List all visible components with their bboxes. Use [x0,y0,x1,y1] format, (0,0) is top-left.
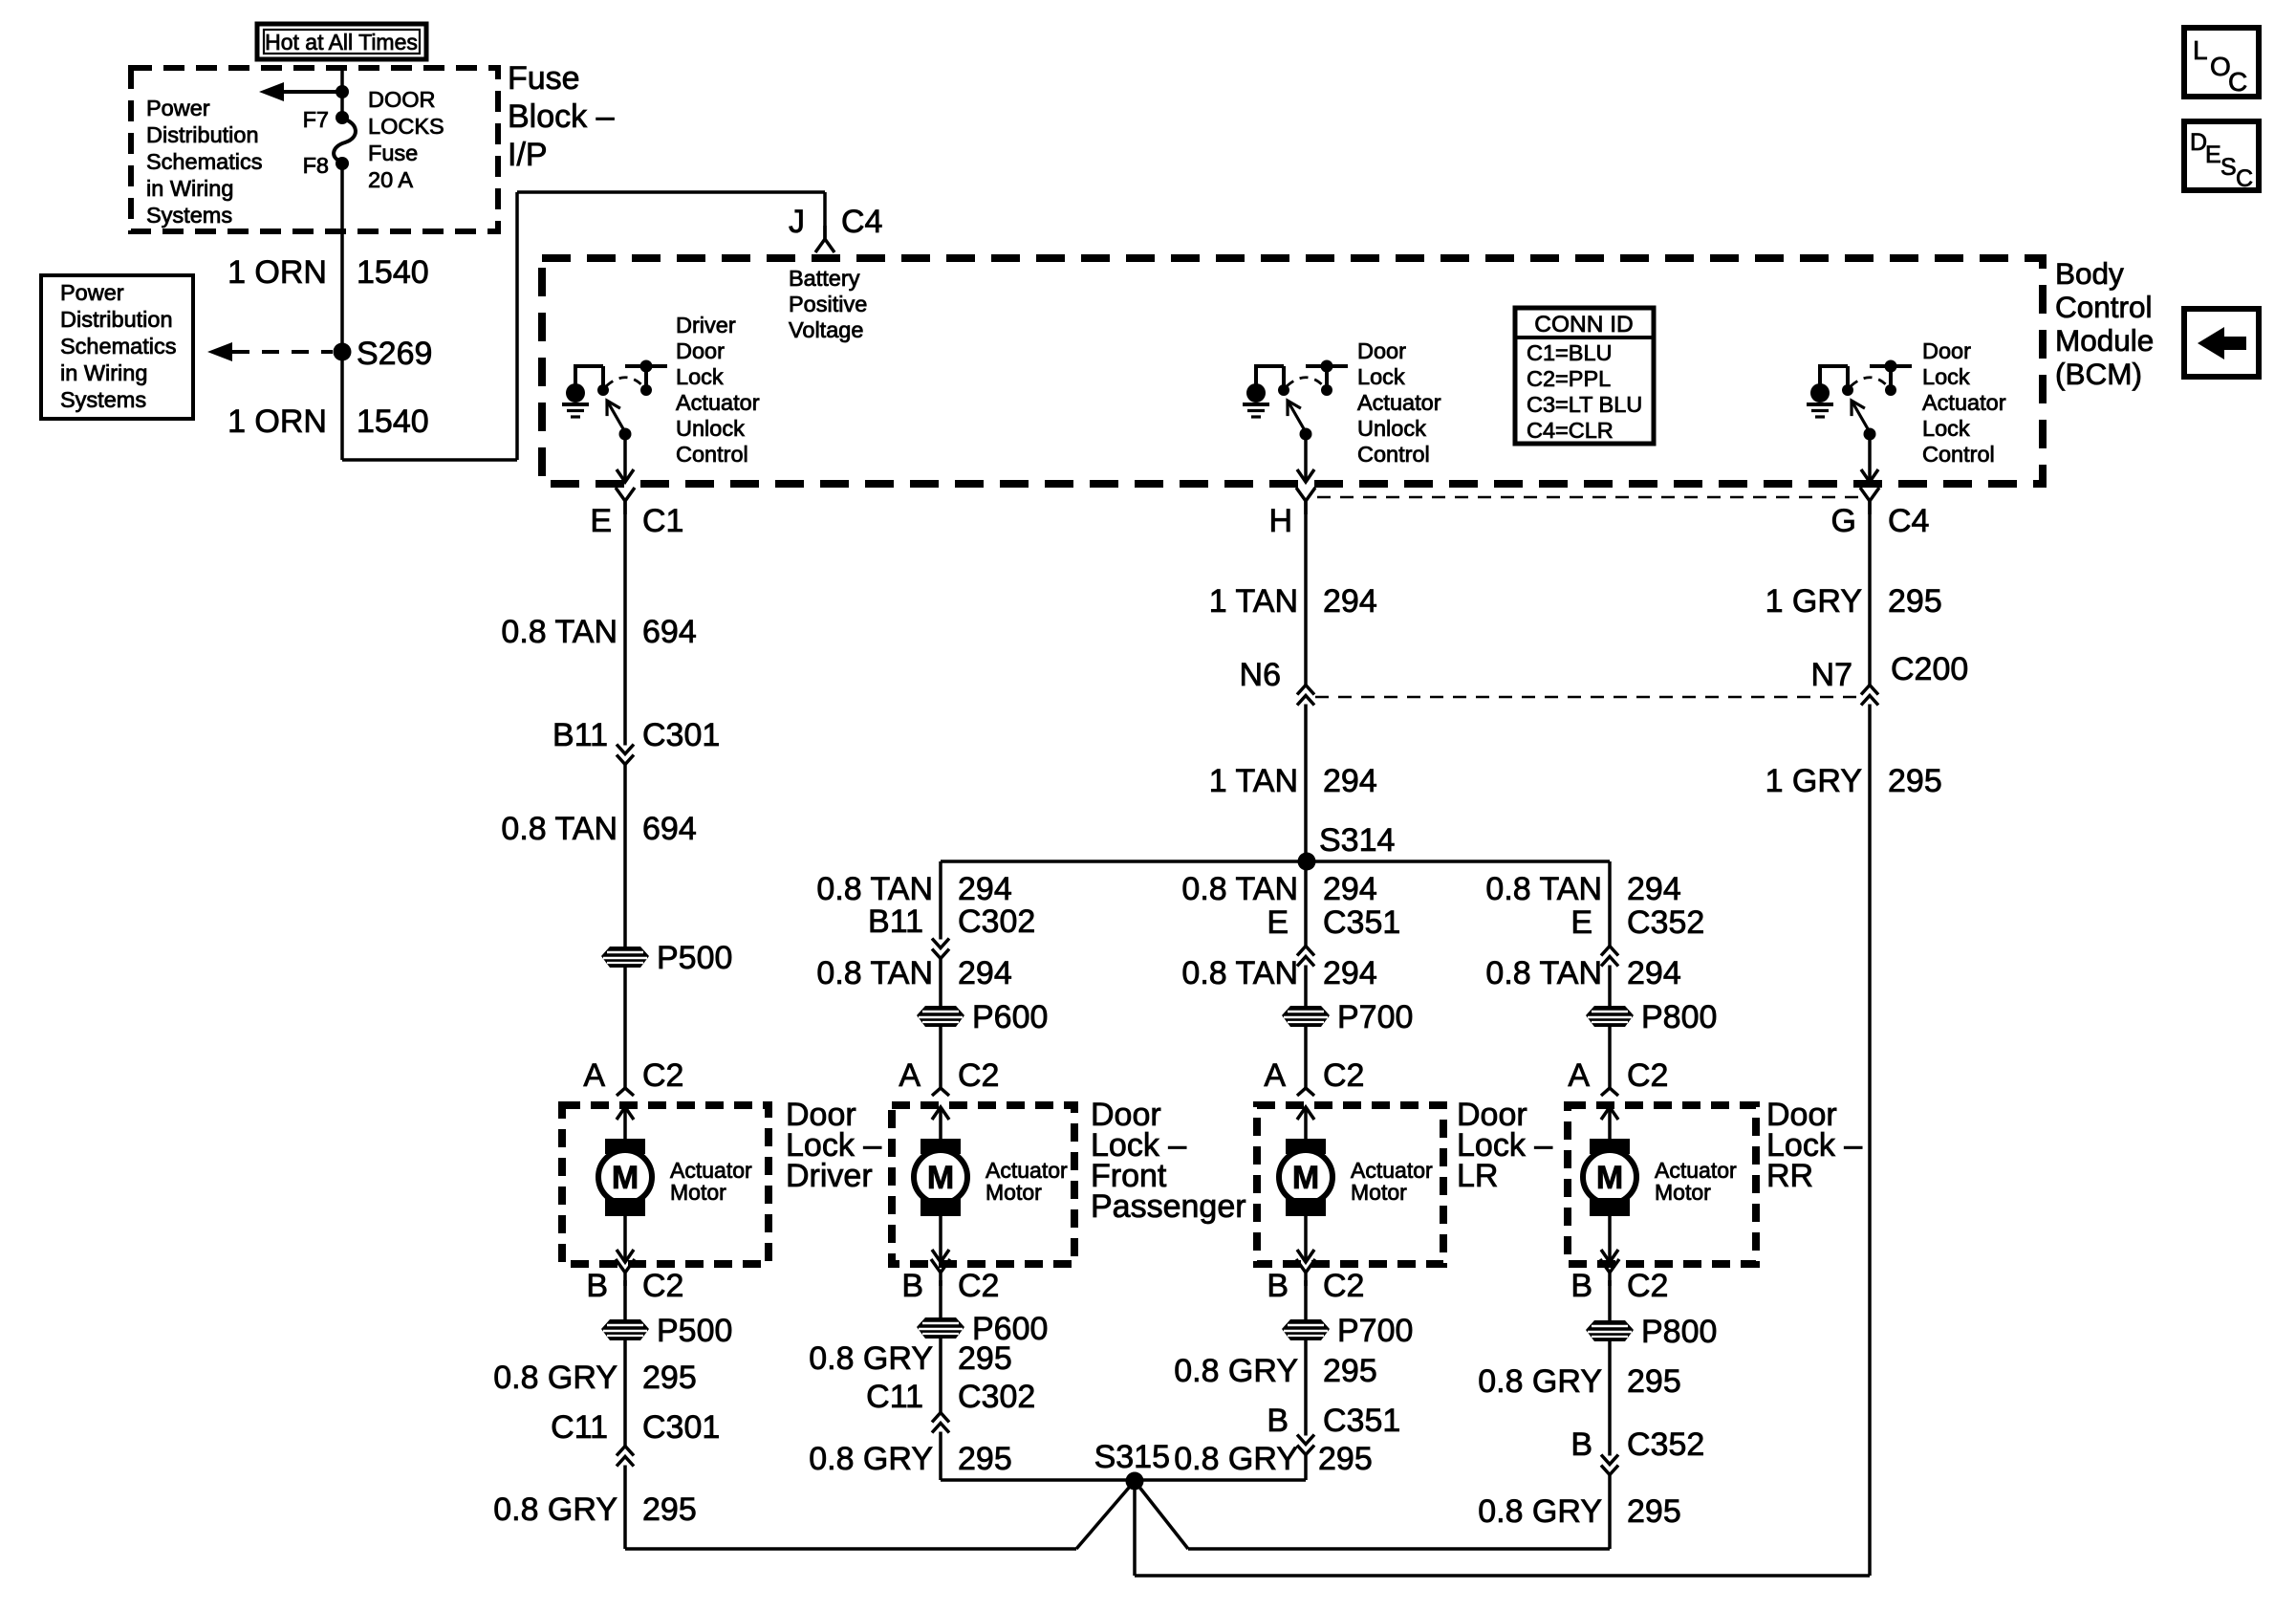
svg-text:P800: P800 [1641,999,1717,1035]
svg-text:(BCM): (BCM) [2055,357,2142,391]
wire B passenger to P600 [939,1280,942,1480]
svg-text:RR: RR [1766,1158,1813,1194]
svg-text:C2: C2 [958,1268,999,1304]
svg-text:1 GRY: 1 GRY [1765,763,1862,799]
svg-text:0.8 TAN: 0.8 TAN [501,811,617,847]
svg-text:295: 295 [1888,583,1942,620]
actuator motor M (right rear) [1583,1139,1636,1216]
svg-text:0.8 GRY: 0.8 GRY [493,1491,617,1528]
svg-text:294: 294 [1323,871,1377,907]
pass-through grommet P500 [601,947,649,968]
svg-text:0.8 GRY: 0.8 GRY [493,1360,617,1396]
pass-through grommet P800 [1586,1006,1634,1027]
svg-text:0.8 GRY: 0.8 GRY [1174,1441,1298,1477]
svg-text:C352: C352 [1627,904,1704,941]
svg-text:C301: C301 [642,1409,720,1446]
svg-text:1 GRY: 1 GRY [1765,583,1862,620]
svg-text:294: 294 [1323,955,1377,991]
svg-text:694: 694 [642,614,697,650]
svg-text:CONN ID: CONN ID [1534,312,1633,337]
wire into actuator (driver) [617,1107,634,1120]
svg-text:E: E [590,503,612,539]
harness boundary dashed (C200) bottom [1315,696,1858,699]
svg-text:0.8 TAN: 0.8 TAN [1485,871,1602,907]
svg-text:E: E [2205,142,2221,168]
svg-text:C4: C4 [841,204,882,240]
svg-text:1 ORN: 1 ORN [227,403,327,440]
pass-through grommet P500 (lower) [601,1319,649,1340]
actuator motor M (front passenger) [914,1139,967,1216]
svg-text:G: G [1831,503,1856,539]
svg-text:20 A: 20 A [368,167,413,192]
svg-text:LOCKS: LOCKS [368,114,444,139]
svg-text:295: 295 [642,1360,697,1396]
svg-text:Distribution: Distribution [60,307,173,332]
svg-text:C1: C1 [642,503,683,539]
svg-text:C302: C302 [958,1379,1035,1415]
svg-text:B11: B11 [552,717,608,753]
svg-text:B: B [1570,1426,1592,1463]
svg-text:C301: C301 [642,717,720,753]
connector pin B / C2 (left rear) [1296,1259,1315,1286]
svg-text:in Wiring: in Wiring [60,360,147,385]
svg-text:0.8 GRY: 0.8 GRY [809,1441,933,1477]
svg-text:A: A [1264,1057,1286,1094]
DESC reference box [2184,121,2259,190]
svg-text:C1=BLU: C1=BLU [1527,340,1612,365]
driver door lock actuator unlock control switch [562,360,667,483]
svg-text:Block –: Block – [508,98,615,135]
svg-text:0.8 TAN: 0.8 TAN [816,955,933,991]
svg-text:Actuator: Actuator [1922,390,2006,415]
svg-text:P700: P700 [1337,999,1413,1035]
fuse block I/P dashed box [131,68,498,231]
door lock actuator box (left rear) [1257,1105,1443,1264]
svg-text:Battery: Battery [789,266,860,291]
actuator motor M (left rear) [1279,1139,1332,1216]
svg-text:1540: 1540 [357,403,429,440]
svg-text:Unlock: Unlock [676,416,745,441]
svg-text:C2: C2 [958,1057,999,1094]
wire into actuator (right rear) [1601,1107,1618,1120]
svg-text:C4=CLR: C4=CLR [1527,418,1614,443]
svg-text:C352: C352 [1627,1426,1704,1463]
svg-text:Schematics: Schematics [60,334,176,359]
svg-text:295: 295 [1318,1441,1373,1477]
svg-text:P800: P800 [1641,1314,1717,1350]
Hot at All Times label box [257,24,426,59]
svg-text:C3=LT BLU: C3=LT BLU [1527,392,1642,417]
wire B driver to P500 [623,1280,627,1549]
svg-text:295: 295 [958,1441,1012,1477]
svg-text:Control: Control [1357,442,1430,467]
wire BCM return bus [1135,1574,1870,1578]
svg-text:C2: C2 [642,1057,683,1094]
svg-text:294: 294 [1323,583,1377,620]
svg-text:295: 295 [958,1340,1012,1377]
arrow reference box [2184,309,2259,377]
Power Distribution Schematics note (S269) [41,275,193,419]
svg-text:Actuator: Actuator [676,390,760,415]
svg-text:0.8 TAN: 0.8 TAN [1181,871,1298,907]
wire branch from S314 [941,860,1610,863]
door lock actuator lock control switch [1807,360,1912,483]
svg-text:N7: N7 [1811,657,1852,693]
svg-text:0.8 TAN: 0.8 TAN [1485,955,1602,991]
pass-through grommet P800 (lower) [1586,1320,1634,1341]
svg-text:DOOR: DOOR [368,87,436,112]
svg-text:P500: P500 [657,1313,732,1349]
svg-text:0.8 GRY: 0.8 GRY [1478,1363,1602,1400]
svg-text:A: A [583,1057,605,1094]
junction to power distribution arrow [336,85,349,98]
svg-text:Positive: Positive [789,292,867,316]
svg-text:294: 294 [1323,763,1377,799]
svg-text:0.8 TAN: 0.8 TAN [816,871,933,907]
wire out of actuator (right rear) [1608,1216,1612,1262]
pass-through grommet P700 [1282,1006,1330,1027]
svg-text:Driver: Driver [676,313,736,337]
wire run to BCM battery feed [342,458,517,462]
door lock actuator box (right rear) [1568,1105,1756,1264]
svg-text:1 TAN: 1 TAN [1209,763,1298,799]
svg-text:C2: C2 [642,1268,683,1304]
svg-text:0.8 GRY: 0.8 GRY [809,1340,933,1377]
pass-through grommet P600 [917,1006,964,1027]
svg-text:0.8 TAN: 0.8 TAN [501,614,617,650]
svg-text:LR: LR [1457,1158,1498,1194]
svg-text:S314: S314 [1319,822,1395,859]
wire B LR to P700 [1304,1280,1308,1480]
svg-text:1540: 1540 [357,254,429,291]
wire 0.8 TAN 694 driver [623,501,627,1089]
svg-text:M: M [1292,1160,1319,1196]
svg-text:C2: C2 [1323,1057,1364,1094]
svg-text:B: B [901,1268,923,1304]
svg-text:Door: Door [676,338,725,363]
svg-text:0.8 TAN: 0.8 TAN [1181,955,1298,991]
svg-text:294: 294 [1627,955,1681,991]
LOC reference box [2184,28,2259,97]
wire P600 branch to S315 [941,1478,1306,1482]
fuse DOOR LOCKS 20 A [334,119,356,162]
svg-text:694: 694 [642,811,697,847]
door lock actuator box (front passenger) [892,1105,1074,1264]
svg-text:Motor: Motor [1351,1180,1407,1205]
svg-text:Hot at All Times: Hot at All Times [265,30,418,54]
svg-text:295: 295 [1627,1363,1681,1400]
svg-text:Fuse: Fuse [508,60,580,97]
wire fuse output 1 ORN 1540 [340,163,344,460]
svg-text:B: B [586,1268,608,1304]
svg-text:294: 294 [958,955,1012,991]
svg-text:M: M [927,1160,954,1196]
wire driver bottom bus [625,1547,1076,1551]
CONN ID table [1515,308,1654,444]
svg-text:C2: C2 [1627,1057,1668,1094]
Body Control Module dashed box [542,258,2043,484]
svg-text:C351: C351 [1323,904,1400,941]
svg-text:Passenger: Passenger [1091,1188,1246,1225]
svg-text:295: 295 [642,1491,697,1528]
svg-text:Systems: Systems [146,203,232,228]
svg-text:A: A [899,1057,921,1094]
svg-text:P600: P600 [972,999,1048,1035]
svg-text:Body: Body [2055,256,2124,291]
svg-text:0.8 GRY: 0.8 GRY [1174,1353,1298,1389]
wire RR bottom bus [1188,1547,1610,1551]
svg-text:295: 295 [1323,1353,1377,1389]
wire out of actuator (left rear) [1304,1216,1308,1262]
svg-text:B: B [1570,1268,1592,1304]
svg-text:H: H [1268,503,1292,539]
actuator motor M (driver) [598,1139,652,1216]
svg-text:Lock: Lock [1357,364,1405,389]
door lock actuator unlock control switch [1243,360,1348,483]
wire out of actuator (front passenger) [939,1216,942,1262]
svg-text:E: E [1267,904,1289,941]
svg-text:Schematics: Schematics [146,149,262,174]
svg-text:P500: P500 [657,940,732,976]
svg-text:Lock: Lock [676,364,724,389]
svg-text:S: S [2220,154,2237,181]
svg-text:B11: B11 [868,903,923,940]
svg-text:S315: S315 [1094,1439,1170,1475]
svg-text:Distribution: Distribution [146,122,259,147]
svg-text:Power: Power [146,96,210,120]
wire 0.8 TAN 294 RR [1608,861,1612,1089]
svg-text:C: C [2228,67,2247,97]
svg-text:M: M [1596,1160,1623,1196]
svg-text:Motor: Motor [1655,1180,1711,1205]
svg-text:Control: Control [1922,442,1995,467]
svg-text:F8: F8 [303,153,329,178]
svg-text:C302: C302 [958,903,1035,940]
svg-text:Motor: Motor [670,1180,726,1205]
svg-text:C351: C351 [1323,1403,1400,1439]
svg-text:I/P: I/P [508,137,548,173]
svg-text:294: 294 [958,871,1012,907]
svg-text:Motor: Motor [986,1180,1042,1205]
svg-text:0.8 GRY: 0.8 GRY [1478,1493,1602,1530]
connector pin B / C2 (driver) [616,1259,635,1286]
wire into actuator (left rear) [1297,1107,1314,1120]
svg-text:294: 294 [1627,871,1681,907]
svg-text:295: 295 [1627,1493,1681,1530]
svg-text:C200: C200 [1891,651,1968,687]
splice S314 [1298,853,1316,871]
svg-text:Unlock: Unlock [1357,416,1426,441]
svg-text:Lock: Lock [1922,416,1970,441]
svg-text:Fuse: Fuse [368,141,418,165]
svg-text:C: C [2236,165,2253,192]
svg-text:Voltage: Voltage [789,317,863,342]
svg-text:295: 295 [1888,763,1942,799]
svg-text:1 ORN: 1 ORN [227,254,327,291]
harness boundary dashed (C200) top [1317,496,1858,499]
svg-text:in Wiring: in Wiring [146,176,233,201]
svg-text:Lock: Lock [1922,364,1970,389]
pass-through grommet P700 (lower) [1282,1319,1330,1340]
svg-text:F7: F7 [303,107,329,132]
svg-text:Door: Door [1357,338,1406,363]
svg-text:Module: Module [2055,323,2154,358]
svg-text:C2=PPL: C2=PPL [1527,366,1611,391]
svg-text:L: L [2193,35,2208,65]
svg-text:E: E [1570,904,1592,941]
wire 0.8 TAN 294 front passenger [939,861,942,1089]
svg-text:A: A [1568,1057,1590,1094]
svg-text:B: B [1267,1403,1289,1439]
svg-text:Power: Power [60,280,124,305]
dashed reference arrow to power distribution [232,350,333,354]
svg-text:Systems: Systems [60,387,146,412]
svg-text:J: J [789,204,805,240]
wire into actuator (front passenger) [932,1107,949,1120]
connector pin B / C2 (right rear) [1600,1259,1619,1286]
wire 1 GRY 295 [1868,501,1872,1576]
svg-text:1 TAN: 1 TAN [1209,583,1298,620]
wire from hot feed into fuse [340,66,344,118]
svg-text:Door: Door [1922,338,1971,363]
svg-text:Actuator: Actuator [1357,390,1441,415]
pass-through grommet P600 (lower) [917,1317,964,1339]
splice S269 [334,343,352,361]
svg-text:M: M [612,1160,639,1196]
svg-text:B: B [1267,1268,1289,1304]
svg-text:C11: C11 [551,1409,608,1446]
wire B RR to P800 [1608,1280,1612,1549]
connector pin B / C2 (front passenger) [931,1259,950,1286]
svg-text:Driver: Driver [786,1158,873,1194]
svg-text:C11: C11 [866,1379,923,1415]
svg-text:S269: S269 [357,336,432,372]
door lock actuator box (driver) [562,1105,769,1264]
svg-text:Control: Control [2055,290,2153,324]
wire out of actuator (driver) [623,1216,627,1262]
svg-text:P700: P700 [1337,1313,1413,1349]
svg-text:Control: Control [676,442,748,467]
wire 1 TAN 294 [1304,501,1308,1089]
svg-text:C2: C2 [1323,1268,1364,1304]
svg-text:C4: C4 [1888,503,1929,539]
svg-text:C2: C2 [1627,1268,1668,1304]
svg-text:N6: N6 [1240,657,1281,693]
